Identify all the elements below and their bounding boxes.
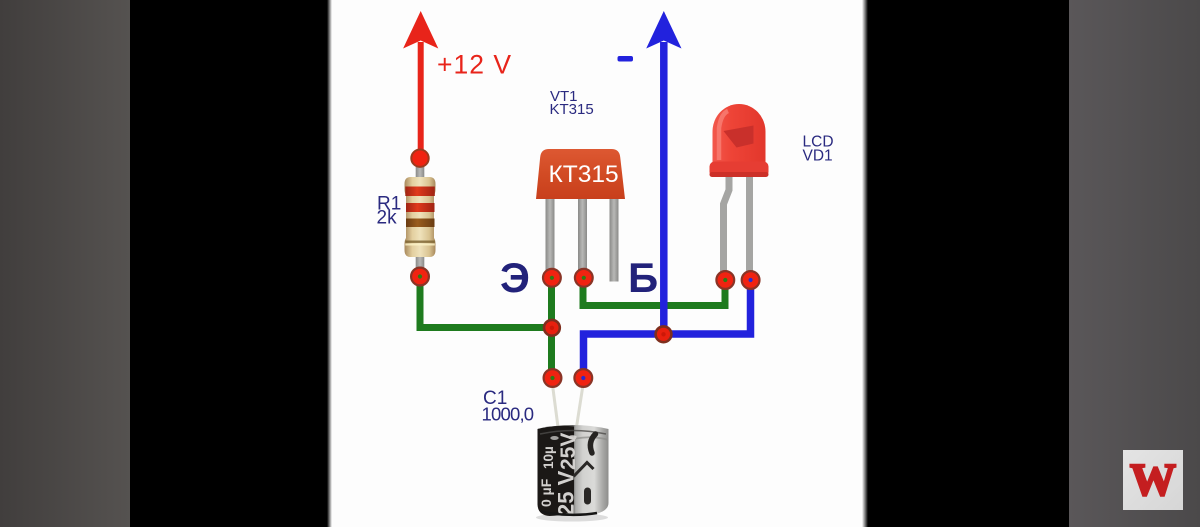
svg-text:Э: Э: [500, 254, 530, 301]
svg-text:+12 V: +12 V: [437, 50, 512, 80]
wire: green emitter leg drop: [548, 276, 555, 328]
capacitor C1: [536, 385, 609, 522]
svg-text:0 µF: 0 µF: [538, 478, 554, 507]
node: capacitor minus lead: [574, 369, 592, 387]
power rail minus: blue arrow up: [646, 11, 681, 334]
label: R1 2k: [377, 194, 402, 229]
power rail +12V: red arrow up: [403, 11, 438, 158]
white schematic panel: [327, 0, 868, 527]
node: emitter Э: [543, 269, 561, 287]
svg-text:Б: Б: [628, 254, 658, 301]
label: emitter Э: [500, 254, 530, 301]
node: LED anode: [716, 271, 734, 289]
svg-text:1000,0: 1000,0: [482, 404, 534, 425]
node: LED cathode: [742, 271, 760, 289]
wire: green from resistor bottom to emitter junction: [420, 275, 552, 328]
wire: green from base node to LED anode: [583, 277, 725, 306]
node: +12V to resistor top: [411, 150, 428, 167]
resistor R1: [405, 160, 436, 272]
wire: green junction down to capacitor plus: [548, 328, 555, 379]
label: LCD VD1: [803, 134, 834, 165]
svg-text:КТ315: КТ315: [549, 161, 619, 188]
label: VT1 KT315: [550, 88, 594, 118]
junction: minus rail node: [656, 326, 672, 342]
svg-text:KT315: KT315: [550, 101, 594, 118]
label: +12 V: [437, 50, 512, 80]
label: C1 1000,0: [482, 388, 534, 425]
svg-text:VD1: VD1: [803, 148, 833, 165]
transistor VT1 KT315: [536, 149, 625, 282]
junction: emitter rail node: [544, 320, 560, 336]
label: minus sign: [618, 56, 634, 62]
node: capacitor plus lead: [544, 369, 562, 387]
svg-text:2k: 2k: [377, 208, 398, 229]
watermark W logo: [1123, 450, 1183, 510]
right gray gradient bar: [1069, 0, 1200, 527]
left gray gradient bar: [0, 0, 130, 527]
node: base Б: [575, 269, 593, 287]
svg-text:25V: 25V: [557, 433, 580, 470]
svg-text:10µ: 10µ: [541, 446, 556, 469]
LED VD1: [710, 104, 769, 272]
node: resistor bottom: [411, 268, 429, 286]
label: base Б: [628, 254, 658, 301]
wire: blue from capacitor minus up and across to LED cathode: [584, 279, 751, 378]
